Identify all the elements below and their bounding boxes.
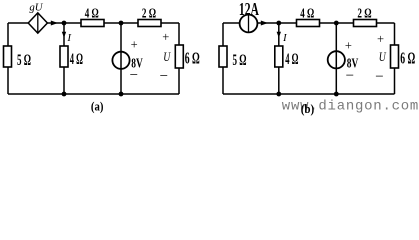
svg-text:12A: 12A xyxy=(239,0,259,19)
svg-text:U: U xyxy=(379,49,387,64)
svg-text:5 Ω: 5 Ω xyxy=(17,52,31,69)
svg-text:+: + xyxy=(162,30,169,44)
svg-text:4 Ω: 4 Ω xyxy=(70,51,83,68)
svg-text:2 Ω: 2 Ω xyxy=(142,7,156,22)
svg-text:2 Ω: 2 Ω xyxy=(357,7,371,22)
svg-text:(a): (a) xyxy=(91,100,104,114)
svg-text:−: − xyxy=(130,67,138,83)
svg-text:4 Ω: 4 Ω xyxy=(285,51,298,68)
svg-text:U: U xyxy=(163,49,171,64)
svg-text:4 Ω: 4 Ω xyxy=(85,7,99,22)
svg-text:(b): (b) xyxy=(301,102,315,116)
svg-text:6 Ω: 6 Ω xyxy=(400,49,415,68)
svg-text:6 Ω: 6 Ω xyxy=(185,49,200,68)
svg-text:+: + xyxy=(345,39,352,53)
svg-text:gU: gU xyxy=(29,2,43,14)
svg-text:5 Ω: 5 Ω xyxy=(233,52,247,69)
svg-text:−: − xyxy=(160,69,168,85)
svg-text:−: − xyxy=(346,68,354,84)
svg-text:4 Ω: 4 Ω xyxy=(300,7,314,22)
svg-text:+: + xyxy=(377,32,384,46)
svg-text:−: − xyxy=(375,69,383,85)
svg-text:+: + xyxy=(131,38,138,52)
